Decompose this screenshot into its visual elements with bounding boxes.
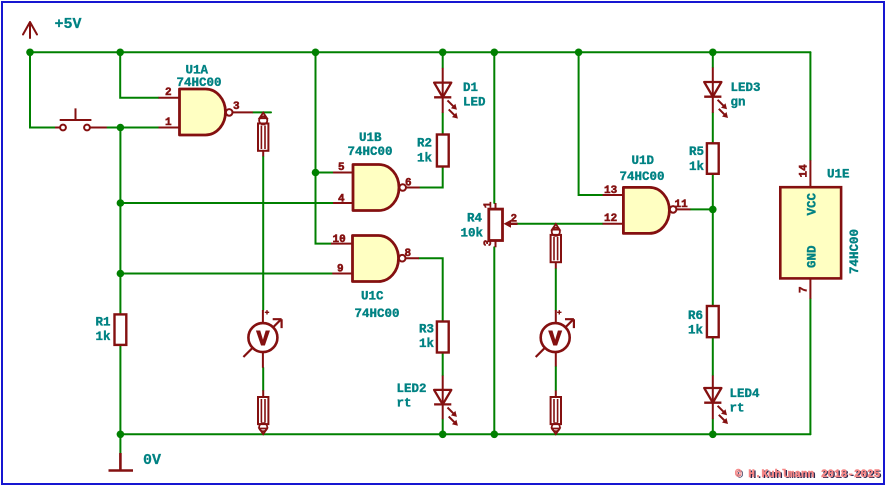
LED LED2 [397,376,458,426]
svg-text:U1D: U1D [632,154,655,168]
svg-text:R3: R3 [419,322,434,336]
svg-text:VCC: VCC [806,192,820,215]
wire branch to U1B pin5 [316,172,334,174]
svg-text:12: 12 [604,213,617,225]
svg-text:U1E: U1E [827,168,850,182]
wire D1 to R2 [442,113,444,135]
svg-text:14: 14 [799,164,811,178]
wire LED3 to R5 [712,113,714,144]
svg-text:3: 3 [233,101,240,113]
resistor R6 [688,306,719,337]
wire R4 wiper to U1D pin12 [517,223,603,225]
svg-text:3: 3 [483,239,495,246]
svg-text:LED2: LED2 [397,382,427,396]
wire LED3 column from rail [712,52,714,67]
resistor R1 [96,314,127,345]
wire R2 bottom to U1B out [420,167,443,188]
svg-text:R2: R2 [417,137,432,151]
svg-text:2: 2 [511,214,518,226]
test point TP4 [551,391,561,435]
svg-text:0V: 0V [143,452,161,469]
svg-text:rt: rt [397,397,412,411]
wire bottom rail up to U1E pin 7 [809,299,811,435]
svg-text:4: 4 [338,194,345,206]
svg-text:U1B: U1B [359,131,382,145]
IC power unit U1E [780,160,862,298]
svg-text:1k: 1k [689,160,705,174]
svg-text:74HC00: 74HC00 [848,229,862,274]
wire R4 pot column bottom [493,247,495,434]
svg-text:V: V [257,329,270,352]
svg-text:rt: rt [730,402,745,416]
svg-text:74HC00: 74HC00 [620,170,665,184]
svg-text:GND: GND [806,245,820,268]
nand gate U1D [603,154,691,233]
svg-text:74HC00: 74HC00 [355,307,400,321]
svg-text:11: 11 [675,199,689,211]
svg-text:1k: 1k [96,330,112,344]
svg-text:74HC00: 74HC00 [177,76,222,90]
wire R6 to LED4 [712,337,714,375]
svg-text:V: V [549,329,562,352]
+5V power symbol [23,22,37,38]
svg-text:9: 9 [337,264,344,276]
wire R3 to LED2 [442,353,444,376]
svg-text:1: 1 [165,117,172,129]
svg-text:D1: D1 [463,81,478,95]
LED LED4 [704,376,760,425]
LED LED3 [704,68,760,119]
svg-text:LED: LED [463,96,486,110]
svg-text:1k: 1k [688,323,704,337]
wire LED2 to bottom rail [442,419,444,434]
svg-text:R6: R6 [688,309,703,323]
wire U1D out to R5/R6 junction [690,208,712,210]
wire U1D pin13 column [579,52,603,195]
svg-text:gn: gn [731,96,746,110]
nand gate U1A [159,64,253,136]
voltmeter V1 [243,310,281,368]
svg-text:LED4: LED4 [730,387,761,401]
test point TP1 [258,113,268,157]
wire TP3 to voltmeter V2 [555,269,557,311]
svg-text:LED3: LED3 [731,81,761,95]
test point TP2 [258,390,268,434]
svg-text:13: 13 [604,185,618,197]
LED D1 [434,68,486,119]
svg-text:1: 1 [483,201,495,208]
wire V1 to TP2 [262,368,264,391]
wire U1A out to test point column [253,111,271,113]
svg-text:R4: R4 [467,212,483,226]
svg-text:U1C: U1C [361,290,384,304]
svg-text:+5V: +5V [55,16,82,33]
svg-text:74HC00: 74HC00 [348,145,393,159]
svg-text:1k: 1k [419,337,435,351]
svg-text:10k: 10k [461,226,484,240]
svg-text:8: 8 [405,248,412,260]
wire LED4 to bottom rail [712,419,714,434]
svg-text:10: 10 [333,234,346,246]
wire R4 pot column top [493,52,495,203]
wire switch junction column down to R1 [119,128,121,315]
svg-text:6: 6 [405,178,412,190]
svg-text:© H.Kuhlmann 2018-2025: © H.Kuhlmann 2018-2025 [735,469,881,481]
potentiometer R4 [461,201,518,247]
wire R1 bottom to bottom rail [119,345,121,434]
svg-text:5: 5 [338,162,345,174]
svg-text:R1: R1 [96,316,111,330]
svg-text:2: 2 [165,87,172,99]
wire V2 to TP4 [555,366,557,390]
copyright note [735,469,882,482]
wire top rail down to U1E pin 14 [809,52,811,160]
pushbutton switch S1 [55,108,107,130]
wire ground stub [119,434,121,453]
svg-text:1k: 1k [417,151,433,165]
wire TP1 to voltmeter V1 [262,156,264,310]
wire bottom rail [120,433,810,435]
resistor R5 [689,143,719,174]
nand gate U1C [331,234,419,321]
svg-text:7: 7 [799,286,811,293]
wire top rail [30,51,810,53]
resistor R3 [419,322,449,353]
wire D1 column from rail [442,52,444,68]
wire left rail down to switch [30,52,55,127]
wire U1C pin9 row [120,273,332,275]
wire U1A pin2 column [120,52,158,97]
wire U1B pin4 row [120,202,333,204]
wire U1B pin5 / U1C pin10 column [316,52,332,243]
wire U1C out to R3 [419,258,443,321]
wire R5 to junction to R6 [712,174,714,306]
nand gate U1B [333,131,420,211]
wire switch to U1A pin1 [95,127,159,129]
ground 0V symbol [109,453,134,471]
test point TP3 [551,224,561,269]
svg-text:R5: R5 [689,145,704,159]
resistor R2 [417,135,449,167]
voltmeter V2 [536,310,574,366]
